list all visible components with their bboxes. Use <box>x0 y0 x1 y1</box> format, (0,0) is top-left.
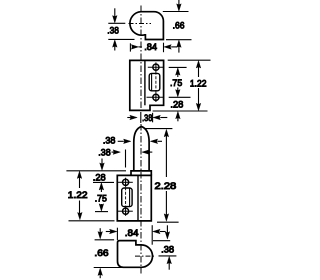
hole upper bottom <box>153 94 159 100</box>
hole lower top <box>123 179 129 185</box>
dimension .84 lower bottom view <box>106 225 166 245</box>
dimension 1.22 lower left <box>79 174 81 188</box>
dimension 1.22 upper right side <box>198 63 200 108</box>
latch front body <box>117 175 151 221</box>
svg-text:1.22: 1.22 <box>68 190 88 201</box>
dimension .66 upper right <box>163 0 192 53</box>
svg-text:.38: .38 <box>107 26 119 37</box>
svg-text:1.22: 1.22 <box>190 79 207 90</box>
node hole centerline lower <box>125 178 127 216</box>
svg-text:.75: .75 <box>170 78 182 89</box>
dimension .38 bottom right <box>166 225 168 234</box>
dimension .28 lower left <box>101 159 103 167</box>
hole lower bottom <box>123 208 129 214</box>
dimension 2.28 lower right <box>145 128 173 130</box>
latch bottom view outline <box>118 241 153 268</box>
svg-text:.38: .38 <box>103 136 116 147</box>
svg-text:.84: .84 <box>125 228 139 239</box>
svg-text:.38: .38 <box>98 147 110 158</box>
svg-text:.84: .84 <box>144 42 158 53</box>
latch tab top <box>131 171 151 176</box>
node centerline bottom view horizontal <box>135 255 156 257</box>
keeper front view outline <box>130 60 164 110</box>
dimension .38 pin row1 <box>127 113 167 123</box>
slot upper <box>149 73 160 90</box>
latch pin dome <box>134 126 149 170</box>
svg-text:.75: .75 <box>95 193 107 204</box>
svg-text:.66: .66 <box>94 248 108 259</box>
svg-text:.38: .38 <box>142 113 152 124</box>
node centerline top view horizontal <box>129 23 152 25</box>
hole upper top <box>153 64 159 70</box>
node hole centerline upper <box>155 62 157 102</box>
dimension .38 pin row3 <box>112 151 115 153</box>
dimension .75 upper right side <box>153 60 211 111</box>
dimension .84 upper bottom <box>130 43 177 53</box>
node centerline solid segment at .38 row1 <box>140 112 142 123</box>
dimension .75 lower left <box>100 185 102 192</box>
svg-text:.38: .38 <box>161 244 174 255</box>
dimension .66 bottom left <box>99 228 101 234</box>
svg-text:2.28: 2.28 <box>155 181 177 192</box>
keeper front view flange bend line <box>144 60 146 105</box>
slot lower <box>122 188 132 207</box>
latch flange bend line <box>137 175 139 221</box>
svg-text:.66: .66 <box>173 21 185 32</box>
svg-text:.28: .28 <box>93 172 106 183</box>
node centerline main vertical <box>140 6 142 274</box>
dimension .38 upper left <box>108 8 134 50</box>
dimension .38 pin row2 leader <box>118 140 124 142</box>
keeper top view outline <box>130 12 163 40</box>
svg-text:.28: .28 <box>170 99 183 110</box>
